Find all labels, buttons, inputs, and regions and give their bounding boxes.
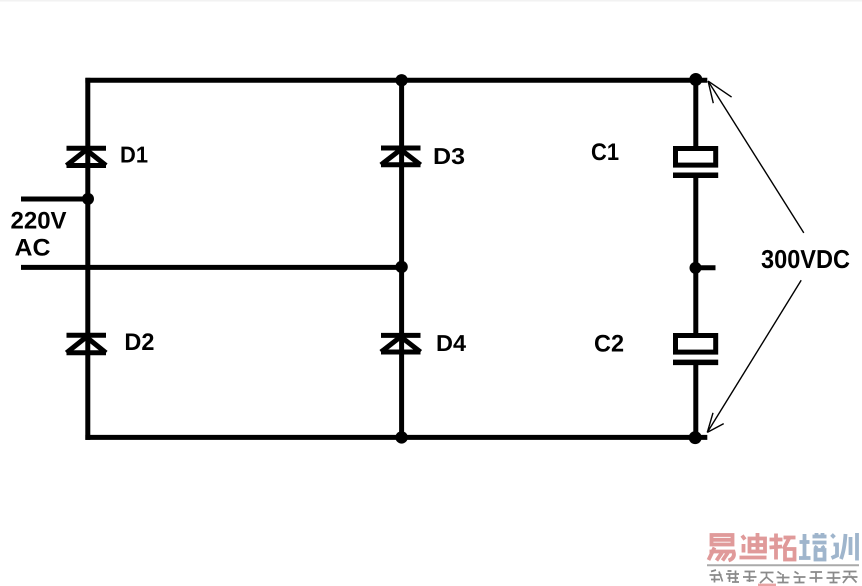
wire middle vertical xyxy=(399,78,404,440)
top edge faint line xyxy=(0,0,862,2)
diode D4 xyxy=(381,335,421,352)
wire midpoint stub right xyxy=(696,265,716,270)
watermark logo small text row xyxy=(710,570,858,583)
wire AC input stub upper xyxy=(21,197,88,202)
capacitor C1 xyxy=(673,149,718,176)
watermark red tick bottom xyxy=(758,584,776,586)
capacitor C2 xyxy=(673,336,718,363)
watermark logo big char 1 (yi) pink xyxy=(709,535,734,561)
junction node bottom middle xyxy=(395,431,407,443)
diode D1 xyxy=(67,148,107,165)
svg-text:D4: D4 xyxy=(436,330,466,356)
wire AC input line lower xyxy=(21,265,402,270)
svg-text:C2: C2 xyxy=(594,331,624,358)
svg-text:D1: D1 xyxy=(120,142,148,168)
wire top horizontal xyxy=(85,78,707,83)
watermark logo big char 2 (di) pink xyxy=(740,533,767,558)
diode D2 xyxy=(67,335,107,353)
wire right vertical upper segment xyxy=(693,78,698,148)
svg-text:300VDC: 300VDC xyxy=(761,244,850,274)
arrow to bottom right node xyxy=(707,280,801,432)
junction node top right xyxy=(689,73,702,86)
watermark logo big char 4 (pei) blue xyxy=(799,533,827,560)
arrow to top right node xyxy=(708,81,804,233)
junction node midpoint right xyxy=(690,262,702,274)
watermark logo big char 3 (tuo) pink xyxy=(770,534,796,560)
svg-text:C1: C1 xyxy=(591,139,619,166)
svg-text:220V: 220V xyxy=(11,208,67,235)
svg-text:D2: D2 xyxy=(124,329,154,356)
junction node bottom right xyxy=(689,431,702,444)
svg-text:D3: D3 xyxy=(433,143,465,169)
wire bottom horizontal xyxy=(85,435,707,440)
watermark logo underline xyxy=(707,564,859,566)
watermark logo big char 5 (xun) blue xyxy=(832,533,858,561)
wire right vertical lower segment xyxy=(693,363,698,440)
junction node AC lower on middle wire xyxy=(395,261,407,273)
svg-text:AC: AC xyxy=(15,235,51,262)
junction node AC upper on left wire xyxy=(82,193,94,205)
diode D3 xyxy=(381,148,421,165)
junction node top middle xyxy=(395,74,407,86)
wire left vertical xyxy=(85,78,90,440)
wire right vertical middle segment xyxy=(693,176,698,335)
